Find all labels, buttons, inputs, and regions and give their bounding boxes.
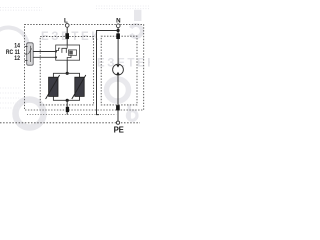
wire L vertical	[66, 27, 68, 45]
svg-text:PE: PE	[114, 126, 124, 135]
inner dashed module box (N-PE spark gap module)	[101, 36, 137, 105]
disconnector box U1	[56, 45, 80, 60]
varistor RV2	[72, 75, 86, 99]
spark gap F1 (gas discharge tube)	[113, 64, 124, 75]
wire varistor bottom rail	[53, 96, 79, 100]
varistor RV1	[46, 75, 60, 99]
junction node A	[66, 72, 69, 75]
wire spark gap to PE	[117, 75, 119, 121]
clamp terminal on L	[65, 33, 69, 39]
wire varistor top rail	[53, 73, 79, 77]
disconnector switch symbol	[56, 45, 67, 53]
svg-text:12: 12	[14, 56, 20, 62]
node N terminal circle	[116, 24, 120, 28]
junction node B	[66, 99, 69, 102]
junction node N branch	[117, 29, 120, 32]
connection nubs on disconnector left edge	[55, 51, 57, 53]
clamp terminal on varistor earth lead	[66, 107, 69, 112]
clamp terminal on N	[116, 33, 120, 39]
outer dashed enclosure (device boundary)	[25, 25, 144, 110]
wire N branch to bottom (solid run)	[97, 31, 119, 115]
RC internal changeover contact	[28, 46, 31, 62]
inner dashed module box (varistor module)	[40, 37, 93, 105]
wire RC to disconnector (lower)	[33, 56, 56, 58]
RC pin 14 stub	[25, 46, 28, 48]
dotted jumper wire (earth link)	[27, 114, 116, 116]
svg-text:14: 14	[14, 44, 20, 50]
svg-text:N: N	[116, 18, 121, 25]
node PE terminal circle	[116, 121, 119, 124]
wire RC to disconnector (upper)	[33, 51, 56, 53]
node L terminal circle	[65, 24, 69, 28]
PE bus dashed line	[0, 122, 140, 124]
wire disconnector to varistor node	[66, 60, 68, 73]
RC pin 12 stub	[25, 60, 28, 62]
RC pin 11 stub	[25, 53, 28, 55]
svg-text:RC 11: RC 11	[6, 50, 21, 56]
wire N vertical	[117, 28, 119, 65]
remote contact RC block	[27, 43, 34, 65]
wire node B down to earth terminal	[66, 100, 68, 114]
clamp terminal on PE lead	[116, 105, 120, 110]
thermal fuse element	[68, 50, 76, 55]
